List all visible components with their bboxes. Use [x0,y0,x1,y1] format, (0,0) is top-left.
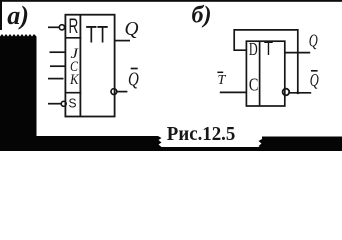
svg-text:S: S [69,95,77,110]
Q-bar overline [131,68,138,70]
U1 S section line [65,92,82,94]
left border line [0,0,2,30]
svg-text:T: T [218,73,227,88]
inversion bubble on Q-bar output of U1 [111,89,117,95]
U1 R section line [65,37,82,39]
inversion bubble on S input [61,101,66,106]
wire Q output of U2 [284,52,310,54]
scan black block left [0,34,37,151]
svg-text:K: K [69,72,79,88]
T-bar overline [217,71,223,73]
wire Q-bar output of U1 [117,91,128,93]
wire C input [50,65,65,67]
wire S input [48,103,61,105]
wire Q-bar output of U2 [289,92,311,94]
flip-flop U2 box [246,41,284,106]
wire R input [48,26,59,28]
wire K input [48,78,64,80]
U2 Q-bar overline [311,70,318,72]
inversion bubble on Q-bar output of U2 [283,89,290,96]
scan bottom-right bar [259,137,342,152]
wire J input [50,51,65,53]
svg-text:TT: TT [86,21,109,48]
wire feedback loop from Q-bar to D [234,30,298,93]
svg-text:Q: Q [128,69,139,91]
svg-text:б): б) [192,3,212,29]
flip-flop U1 box [65,15,114,117]
U2 column divider [259,41,261,106]
scan bottom-left bar [37,136,162,151]
svg-text:C: C [249,74,259,94]
svg-text:Q: Q [309,31,318,51]
junction feedback/Q-bar [296,91,299,94]
svg-text:Рис.12.5: Рис.12.5 [167,123,236,145]
svg-text:D: D [249,39,258,59]
svg-text:T: T [264,39,274,60]
U1 left column divider [79,15,81,117]
inversion bubble on R input [59,25,64,30]
svg-text:а): а) [7,1,29,30]
top border line [0,0,342,2]
svg-text:Q: Q [310,70,319,90]
wire T input to C [220,91,247,93]
svg-text:Q: Q [125,18,140,40]
wire Q output of U1 [115,40,130,42]
svg-text:R: R [69,15,79,38]
scan bottom thin strip [158,147,262,151]
